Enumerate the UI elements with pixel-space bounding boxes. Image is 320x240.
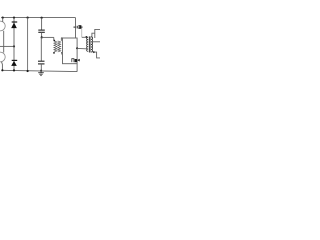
node L <box>76 47 78 49</box>
wire top rail <box>1 17 75 19</box>
node B <box>13 17 15 19</box>
AC source V2 <box>0 52 5 62</box>
node H <box>1 69 3 71</box>
wire bus to right <box>42 36 54 38</box>
wire right drop from top rail <box>75 18 77 38</box>
wire Q1 source lead <box>81 29 83 38</box>
diode D1 <box>11 22 17 28</box>
node J <box>27 70 29 72</box>
wire secondary tap <box>93 41 100 43</box>
wire mid rail <box>0 45 14 47</box>
wire secondary bottom exit <box>93 52 100 58</box>
wire V1 to V2 link <box>3 31 5 53</box>
node D <box>41 17 43 19</box>
transistor Q1 <box>74 25 83 29</box>
wire V1 top lead <box>2 18 4 22</box>
transformer T2 <box>87 36 93 52</box>
AC source V1 <box>0 21 5 31</box>
wire branch2 <box>27 18 29 71</box>
wire T2 secondary top exit <box>92 33 95 37</box>
transistor Q2 <box>72 59 80 63</box>
wire diode branch <box>13 18 15 71</box>
wire box to T2 primary <box>77 47 86 49</box>
wire box to bottom rail <box>76 64 78 72</box>
node E <box>13 45 15 47</box>
node K <box>85 36 87 38</box>
wire secondary exit vertical <box>95 29 100 38</box>
capacitor C2 <box>38 37 45 70</box>
transformer T1 <box>53 38 63 55</box>
diode D2 <box>11 60 17 66</box>
wire V2 bottom lead <box>1 62 4 71</box>
node I <box>13 69 15 71</box>
node G <box>40 70 42 72</box>
node C <box>27 17 29 19</box>
wire Q1 to T2 <box>82 36 87 38</box>
op-amp U1 box <box>63 38 78 64</box>
node F <box>41 36 43 38</box>
capacitor C1 <box>38 18 45 38</box>
ground <box>38 71 44 76</box>
node M <box>93 51 95 53</box>
wire bottom rail <box>2 70 78 71</box>
wire bus drop to T1 <box>53 37 55 40</box>
node A <box>2 17 4 19</box>
